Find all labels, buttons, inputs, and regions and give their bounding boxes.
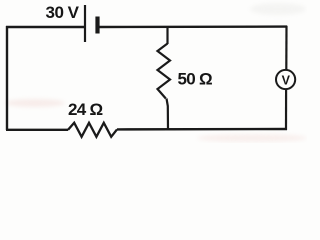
- wire: top, left of battery: [6, 26, 84, 28]
- wire: bottom, left of 24-ohm resistor: [6, 129, 68, 131]
- faint scan smudge top-right: [250, 3, 306, 15]
- svg-text:24 Ω: 24 Ω: [68, 100, 103, 119]
- svg-text:V: V: [282, 73, 291, 87]
- svg-text:50 Ω: 50 Ω: [178, 70, 213, 89]
- wire: right side lower (voltmeter to bottom): [285, 89, 287, 130]
- wire: bottom, right of 24-ohm resistor: [117, 128, 287, 131]
- wire: top, right of battery: [99, 25, 287, 28]
- faint pink bleed-through left: [5, 99, 65, 107]
- voltmeter V circle: [276, 70, 295, 89]
- wire: middle branch upper stub: [166, 26, 168, 44]
- svg-text:30 V: 30 V: [46, 3, 80, 22]
- wire: middle branch lower stub: [167, 99, 169, 131]
- wire: left side vertical: [6, 26, 8, 130]
- wire: right side upper (to voltmeter): [285, 26, 287, 71]
- resistor R1 24-ohm horizontal zigzag: [68, 123, 117, 137]
- battery B1 long plate (left): [84, 5, 86, 42]
- resistor R2 50-ohm vertical zigzag: [158, 44, 171, 99]
- battery B1 short thick plate (right): [95, 17, 99, 34]
- faint pink bleed-through bottom-right: [197, 134, 307, 142]
